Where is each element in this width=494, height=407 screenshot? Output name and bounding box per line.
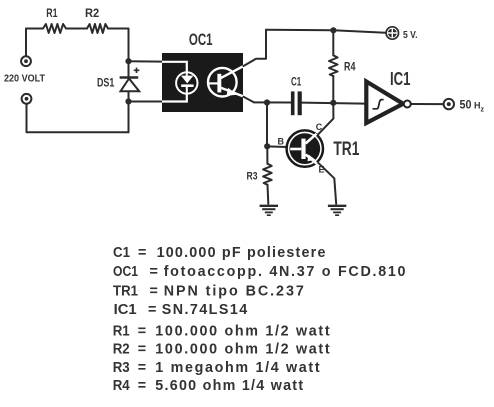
- OC1 phototransistor base bar (white): [217, 74, 221, 93]
- svg-text:NPN tipo BC.237: NPN tipo BC.237: [164, 283, 304, 299]
- svg-text:IC1: IC1: [114, 302, 137, 318]
- OC1 LED circle: [176, 72, 197, 93]
- transistor TR1 circle: [287, 130, 323, 166]
- svg-text:100.000 pF poliestere: 100.000 pF poliestere: [157, 245, 326, 261]
- value label C1 line: [113, 245, 325, 261]
- value label TR1 line: [113, 283, 304, 299]
- value label IC1 line: [114, 302, 248, 318]
- wire IC1 output to 50Hz terminal: [411, 103, 444, 105]
- resistor R4: [329, 55, 338, 76]
- TR1 base lead slot (white): [290, 148, 301, 151]
- OC1 phototransistor circle: [208, 68, 237, 97]
- TR1 collector slot (white): [306, 134, 317, 144]
- junction top rail / R4: [330, 27, 336, 33]
- wire top-left rail from 220V top terminal to R1: [26, 29, 43, 57]
- svg-text:=: =: [148, 302, 156, 318]
- wire vertical drop to base node: [266, 103, 268, 147]
- svg-text:OC1: OC1: [113, 264, 138, 280]
- wire R3 bottom stub to ground: [267, 185, 270, 204]
- wire TR1 emitter down to ground: [318, 163, 336, 204]
- terminal 220V top: [21, 56, 31, 66]
- svg-text:R3: R3: [113, 360, 130, 376]
- svg-text:SN.74LS14: SN.74LS14: [162, 302, 248, 318]
- capacitor C1 plate right: [298, 91, 302, 115]
- svg-text:TR1: TR1: [333, 139, 359, 160]
- svg-text:5 V.: 5 V.: [403, 29, 418, 41]
- value label R4 line: [113, 378, 304, 394]
- value label R2 line: [113, 342, 330, 358]
- junction node A (diode top): [125, 58, 131, 64]
- svg-text:E: E: [319, 165, 325, 175]
- OC1 LED bracket wire (white): [162, 62, 187, 102]
- svg-text:C: C: [316, 122, 323, 132]
- wire TR1 collector up to node C: [318, 103, 333, 135]
- svg-text:=: =: [138, 245, 146, 261]
- ground (R3): [260, 206, 278, 215]
- optocoupler OC1 body: [162, 53, 243, 112]
- OC1 LED symbol: [181, 72, 194, 93]
- wire +5V top rail: [266, 30, 386, 33]
- svg-text:C1: C1: [113, 245, 130, 261]
- svg-text:5.600 ohm 1/4 watt: 5.600 ohm 1/4 watt: [155, 378, 303, 394]
- wire OC1 collector pin up to +5V rail: [244, 30, 267, 66]
- svg-text:fotoaccopp. 4N.37 o FCD.810: fotoaccopp. 4N.37 o FCD.810: [164, 264, 406, 280]
- TR1 base bar (white): [301, 139, 305, 159]
- svg-text:R3: R3: [247, 171, 258, 183]
- capacitor C1 plate left: [291, 91, 295, 115]
- wire 5V rail to terminal: [385, 32, 387, 34]
- junction base node: [264, 143, 270, 149]
- terminal 220V bottom: [22, 94, 32, 104]
- wire between R1 and R2: [66, 28, 87, 30]
- diode DS1 cathode bar: [120, 76, 139, 79]
- OC1 phototransistor emitter line with arrow (white): [221, 88, 244, 97]
- wire stub node B to OC1 pin 2: [129, 101, 163, 103]
- value label OC1 line: [113, 264, 406, 280]
- wire signal rail right of C1: [302, 103, 365, 104]
- svg-text:DS1: DS1: [97, 76, 115, 90]
- svg-text:50: 50: [460, 98, 472, 112]
- wire bottom rail to 220V bottom terminal: [27, 104, 129, 133]
- wire R4 top stub: [332, 30, 334, 55]
- OC1 phototransistor collector line (white): [221, 66, 244, 78]
- diode DS1 plus polarity mark: [134, 68, 140, 73]
- svg-text:z: z: [481, 107, 485, 114]
- svg-text:=: =: [138, 378, 146, 394]
- wire from R2 to top-right corner and down to diode: [108, 29, 129, 78]
- svg-text:=: =: [138, 360, 146, 376]
- svg-text:IC1: IC1: [390, 69, 411, 89]
- diode DS1 triangle: [121, 79, 140, 92]
- svg-text:R1: R1: [46, 8, 58, 20]
- wire stub node A to OC1 pin 1: [129, 60, 163, 62]
- resistor R1: [43, 24, 66, 33]
- svg-text:OC1: OC1: [189, 30, 213, 49]
- terminal +5V: [386, 27, 398, 39]
- transistor TR1 body disc: [289, 133, 320, 164]
- wire OC1 emitter pin to signal rail: [244, 97, 255, 103]
- svg-text:C1: C1: [291, 75, 301, 89]
- svg-text:B: B: [278, 137, 285, 147]
- svg-text:R4: R4: [113, 378, 130, 394]
- svg-text:R2: R2: [113, 342, 130, 358]
- svg-text:=: =: [150, 264, 158, 280]
- OC1 phototransistor base lead (white): [208, 82, 218, 84]
- svg-text:R1: R1: [113, 324, 130, 340]
- IC1 output bubble: [404, 101, 411, 108]
- inverter IC1 triangle: [366, 82, 403, 124]
- junction node B (diode bottom): [125, 98, 131, 104]
- junction signal rail / R4 / collector: [330, 100, 336, 106]
- value label R1 line: [113, 324, 330, 340]
- wire base to TR1: [267, 145, 287, 148]
- ground (TR1 emitter): [328, 206, 346, 215]
- svg-text:=: =: [138, 324, 146, 340]
- svg-text:R4: R4: [344, 62, 356, 74]
- svg-text:=: =: [138, 342, 146, 358]
- value label R3 line: [113, 360, 320, 376]
- svg-text:100.000 ohm 1/2 watt: 100.000 ohm 1/2 watt: [155, 324, 330, 340]
- wire below diode down to bottom rail: [128, 92, 130, 133]
- terminal 50 Hz output: [444, 99, 454, 109]
- junction signal rail / drop: [264, 99, 270, 105]
- svg-text:1 megaohm 1/4 watt: 1 megaohm 1/4 watt: [155, 360, 320, 376]
- wire R4 bottom stub: [332, 76, 334, 103]
- IC1 hysteresis symbol: [373, 100, 384, 109]
- svg-text:R2: R2: [85, 8, 99, 20]
- TR1 emitter arrowhead notch (white): [308, 155, 316, 162]
- svg-text:TR1: TR1: [113, 283, 138, 299]
- TR1 emitter slot (white): [306, 155, 317, 164]
- svg-text:220 VOLT: 220 VOLT: [4, 74, 45, 85]
- svg-text:=: =: [150, 283, 158, 299]
- svg-text:100.000 ohm 1/2 watt: 100.000 ohm 1/2 watt: [155, 342, 330, 358]
- wire signal rail left of C1: [254, 101, 291, 103]
- resistor R2: [87, 24, 108, 33]
- resistor R3: [263, 164, 272, 185]
- wire R3 top stub: [266, 146, 268, 164]
